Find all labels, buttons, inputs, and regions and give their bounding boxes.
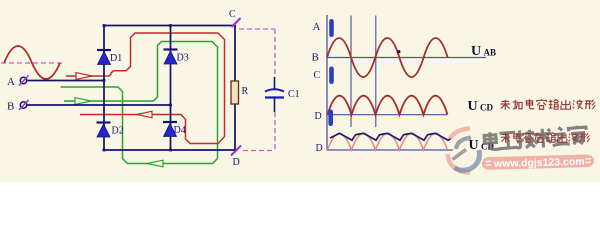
svg-text:www.dgjs123.com: www.dgjs123.com bbox=[493, 156, 585, 170]
svg-text:A: A bbox=[313, 21, 321, 33]
svg-text:C: C bbox=[229, 9, 236, 20]
svg-text:C: C bbox=[314, 70, 321, 81]
svg-text:U: U bbox=[471, 44, 481, 59]
svg-text:AB: AB bbox=[484, 48, 497, 58]
svg-text:D1: D1 bbox=[110, 53, 122, 64]
svg-text:D: D bbox=[316, 143, 323, 154]
svg-text:D2: D2 bbox=[112, 126, 124, 137]
svg-text:B: B bbox=[7, 101, 14, 113]
svg-text:B: B bbox=[312, 52, 319, 64]
svg-text:U: U bbox=[468, 99, 478, 114]
svg-text:C1: C1 bbox=[288, 89, 300, 100]
svg-text:R: R bbox=[242, 86, 249, 97]
svg-text:D: D bbox=[315, 111, 322, 122]
svg-text:D: D bbox=[233, 157, 240, 168]
svg-text:A: A bbox=[7, 76, 15, 88]
svg-text:D3: D3 bbox=[177, 53, 189, 64]
svg-text:D4: D4 bbox=[174, 125, 186, 136]
svg-text:CD: CD bbox=[480, 103, 493, 113]
